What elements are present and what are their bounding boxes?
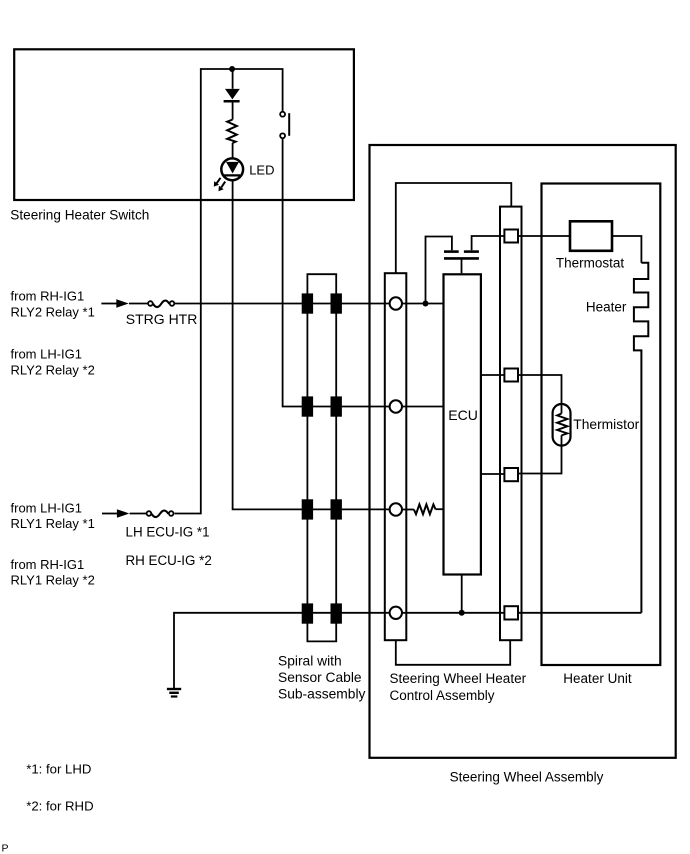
wire: transistor right gate up and to square1 <box>472 236 505 250</box>
svg-text:Sub-assembly: Sub-assembly <box>278 687 366 702</box>
row3 input arrow <box>102 513 118 515</box>
wire: switch output down to row2 <box>283 139 390 407</box>
spiral connector blocks row4 <box>302 603 313 623</box>
transistor Q1 <box>444 252 479 259</box>
control assembly connector (left, with circles) <box>385 273 407 640</box>
wire: ECU right to square3 <box>481 473 505 475</box>
svg-text:Thermostat: Thermostat <box>556 255 625 270</box>
svg-text:Spiral with: Spiral with <box>278 654 342 669</box>
svg-text:from LH-IG1: from LH-IG1 <box>11 347 83 362</box>
LED DS1 <box>214 158 243 191</box>
svg-text:LH ECU-IG *1: LH ECU-IG *1 <box>126 525 210 540</box>
connector square 2 <box>504 369 518 382</box>
svg-text:Control Assembly: Control Assembly <box>390 688 495 703</box>
svg-text:Steering Wheel Heater: Steering Wheel Heater <box>390 671 527 686</box>
heater element (castellated) <box>634 263 648 613</box>
wire: square1 to thermostat <box>518 235 570 237</box>
svg-text:RLY1 Relay *1: RLY1 Relay *1 <box>11 516 95 531</box>
svg-text:P: P <box>2 843 9 854</box>
svg-text:from RH-IG1: from RH-IG1 <box>11 289 85 304</box>
svg-text:Heater Unit: Heater Unit <box>563 671 632 686</box>
control assembly connector circle row3 <box>390 503 402 515</box>
wire: thermistor bottom to square3 <box>518 435 562 473</box>
fuse LH ECU-IG <box>147 511 174 518</box>
wire: ECU bottom to row4 <box>461 575 463 613</box>
connector square 3 <box>504 468 518 481</box>
wire: diode to resistor <box>232 101 234 119</box>
spiral cable right conductor <box>335 274 337 641</box>
svg-text:Steering Heater Switch: Steering Heater Switch <box>10 207 149 222</box>
svg-text:Steering Wheel Assembly: Steering Wheel Assembly <box>450 769 604 784</box>
Steering Wheel Assembly box <box>370 145 676 758</box>
junction dot row1 <box>423 301 429 307</box>
spiral connector blocks row2 <box>302 396 313 416</box>
spiral bottom bar <box>307 640 338 642</box>
svg-text:RH ECU-IG *2: RH ECU-IG *2 <box>126 553 212 568</box>
fuse STRG HTR <box>148 301 174 308</box>
spiral cable left conductor <box>306 274 308 641</box>
ECU box <box>444 274 481 574</box>
wire: circle1 to ECU <box>402 303 444 305</box>
node A junction dot on switch top rail <box>229 66 235 72</box>
diode D1 in switch <box>224 89 240 101</box>
svg-text:RLY2 Relay *2: RLY2 Relay *2 <box>11 362 95 377</box>
svg-text:RLY1 Relay *2: RLY1 Relay *2 <box>11 573 95 588</box>
thermostat box <box>570 221 612 251</box>
control assembly connector circle row2 <box>390 400 402 412</box>
resistor R2 (row3) <box>414 504 436 514</box>
switch S1 contacts <box>280 112 289 139</box>
connector square 1 <box>504 230 518 243</box>
bracket joining connectors at bottom <box>396 640 510 665</box>
control assembly connector circle row1 <box>390 297 402 309</box>
wire: square2 right to thermistor top <box>518 375 562 414</box>
wire: arrow to fuse2 <box>130 513 146 515</box>
row1 input arrow <box>101 303 117 305</box>
svg-text:STRG HTR: STRG HTR <box>126 311 198 327</box>
LED emission arrows <box>217 178 221 184</box>
wire: resistor to ECU <box>436 508 444 510</box>
wire: circle2 to ECU <box>402 406 444 408</box>
wire: thermostat to heater <box>612 236 641 263</box>
row4 ground rail <box>174 613 390 688</box>
wire: arrow to fuse1 <box>129 303 148 305</box>
Heater Unit box <box>542 184 661 666</box>
svg-text:*2: for RHD: *2: for RHD <box>26 798 93 813</box>
svg-text:Thermistor: Thermistor <box>573 417 639 432</box>
wire: ECU right to square2 <box>481 374 505 376</box>
svg-text:Sensor Cable: Sensor Cable <box>278 670 362 685</box>
svg-text:from RH-IG1: from RH-IG1 <box>11 557 85 572</box>
wire: circle4 to heater return <box>402 612 641 614</box>
wire: LED branch stem from top rail <box>232 69 234 89</box>
Steering Heater Switch box <box>14 49 354 200</box>
connector square 4 <box>504 606 518 619</box>
svg-text:RLY2 Relay *1: RLY2 Relay *1 <box>11 304 95 319</box>
wire: gate feed from row1 junction up to transistor <box>426 237 452 304</box>
thermistor <box>553 404 571 446</box>
wire: resistor to LED <box>232 143 234 158</box>
svg-text:Heater: Heater <box>586 300 627 315</box>
wire: circle3 to resistor <box>402 509 414 511</box>
svg-text:from LH-IG1: from LH-IG1 <box>11 500 83 515</box>
wire: transistor drain to ECU top <box>461 258 463 273</box>
junction dot row4 <box>459 610 465 616</box>
heater control connector (middle, with squares) <box>500 207 522 641</box>
control assembly connector circle row4 <box>390 607 402 619</box>
spiral top bar <box>307 273 338 275</box>
svg-text:LED: LED <box>249 162 274 177</box>
wire: fuse1 to connector circle1 (row1) <box>175 303 390 305</box>
top rail inside assembly <box>396 183 512 273</box>
wire: LED cathode down to row3 corner <box>233 180 390 509</box>
spiral connector blocks row3 <box>302 499 313 519</box>
spiral connector blocks row1 <box>302 293 313 313</box>
ground <box>167 688 181 698</box>
svg-text:*1: for LHD: *1: for LHD <box>26 762 91 777</box>
wire: fuse2 output up left side to switch top rail <box>175 69 283 514</box>
svg-text:ECU: ECU <box>448 407 478 423</box>
resistor R1 (LED series) <box>227 120 237 143</box>
